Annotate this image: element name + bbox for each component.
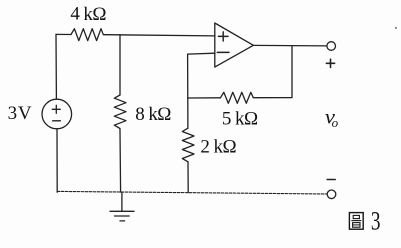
svg-text:5 kΩ: 5 kΩ bbox=[222, 109, 258, 130]
svg-text:kΩ: kΩ bbox=[83, 4, 106, 25]
svg-text:4: 4 bbox=[70, 4, 80, 25]
svg-text:8 kΩ: 8 kΩ bbox=[135, 104, 171, 125]
svg-text:3: 3 bbox=[8, 103, 18, 124]
svg-text:o: o bbox=[332, 115, 339, 130]
svg-text:V: V bbox=[18, 103, 32, 124]
svg-text:3: 3 bbox=[371, 207, 381, 235]
svg-text:2 kΩ: 2 kΩ bbox=[200, 136, 236, 157]
